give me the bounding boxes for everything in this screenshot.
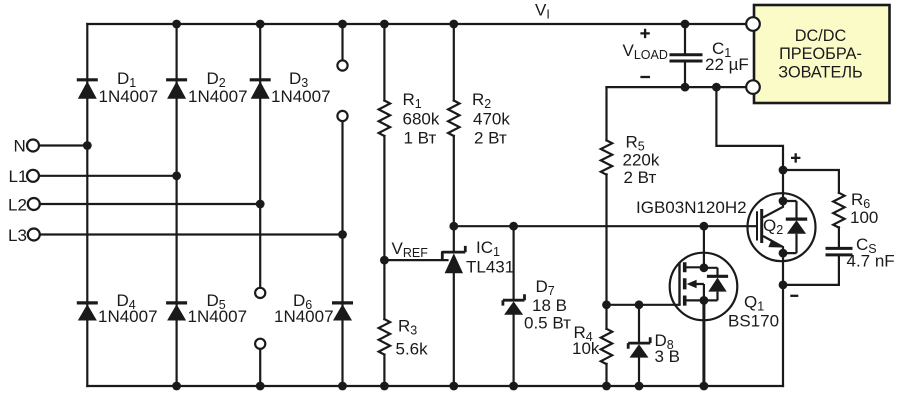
node gate line R2 <box>449 222 458 231</box>
svg-text:L1: L1 <box>9 167 28 186</box>
wire input L1 <box>39 175 177 177</box>
svg-text:0.5 Вт: 0.5 Вт <box>524 314 571 333</box>
wire Q1 source <box>702 300 705 386</box>
wire input N <box>39 144 87 146</box>
wire left rail (column A) <box>86 24 88 386</box>
zener diode D7 <box>503 294 525 315</box>
wire column C lower stub <box>259 349 261 386</box>
node top rail C1 <box>681 20 690 29</box>
diode D4 <box>77 303 98 321</box>
wire column D8 <box>638 305 640 386</box>
resistor R1 <box>379 101 390 137</box>
svg-text:IGB03N120H2: IGB03N120H2 <box>636 198 747 217</box>
svg-text:22 µF: 22 µF <box>705 55 749 74</box>
node L1 junction <box>172 171 181 180</box>
svg-text:BS170: BS170 <box>728 312 779 331</box>
wire column R2/IC1 <box>453 24 455 386</box>
wire R4/D8 to Q1 gate <box>607 304 680 306</box>
node bottom rail D7 <box>509 382 518 391</box>
svg-text:2 Вт: 2 Вт <box>474 129 507 148</box>
DC/DC converter block <box>754 5 890 103</box>
wire VREF <box>384 252 447 260</box>
svg-text:10k: 10k <box>572 339 600 358</box>
node bottom rail D8 <box>635 382 644 391</box>
terminal column D lower <box>337 111 347 121</box>
svg-text:1N4007: 1N4007 <box>271 87 331 106</box>
svg-text:1N4007: 1N4007 <box>188 87 248 106</box>
wire column D (D6) lower <box>341 121 343 386</box>
diode D1 <box>77 80 98 99</box>
terminal column C lower <box>255 339 265 349</box>
diode D6 <box>332 303 353 321</box>
node DCDC minus wire <box>712 83 721 92</box>
wire Q1 drain <box>703 226 705 267</box>
wire Q2 collector <box>782 170 784 201</box>
svg-text:470k: 470k <box>473 110 510 129</box>
node Q1 source <box>700 296 709 305</box>
node gate line D7 <box>509 222 518 231</box>
svg-text:1 Вт: 1 Вт <box>404 129 437 148</box>
capacitor CS <box>827 248 851 255</box>
diode D3 <box>250 80 271 99</box>
node Q2 collector top <box>779 166 788 175</box>
node VREF <box>380 256 389 265</box>
node top rail B <box>172 20 181 29</box>
terminal column D upper <box>337 60 347 70</box>
node R4 top <box>602 300 611 309</box>
svg-text:680k: 680k <box>403 110 440 129</box>
terminal N <box>27 140 39 152</box>
wire input L2 <box>40 203 260 205</box>
label VLOAD plus <box>640 29 649 38</box>
terminal L3 <box>28 229 40 241</box>
label VLOAD minus <box>640 76 650 78</box>
node Q1 drain <box>700 263 709 272</box>
node gate line Q1 drain <box>700 222 709 231</box>
terminal L2 <box>28 198 40 210</box>
svg-text:DC/DC: DC/DC <box>795 27 847 45</box>
node bottom rail C <box>256 382 265 391</box>
wire column R1/R3 <box>383 24 385 386</box>
transistor Q1 MOSFET <box>670 253 738 321</box>
svg-text:ПРЕОБРА-: ПРЕОБРА- <box>779 45 862 63</box>
wire column B (D2/D5) <box>176 24 178 386</box>
terminal column C upper <box>255 288 265 298</box>
node Q2 collector <box>779 197 788 206</box>
resistor R3 <box>379 319 390 354</box>
resistor R6 <box>833 193 844 228</box>
wire R6 to CS <box>838 227 840 247</box>
svg-text:1N4007: 1N4007 <box>274 307 334 326</box>
node bottom rail Q1 <box>700 382 709 391</box>
terminal DC/DC plus <box>746 17 760 31</box>
node L2 junction <box>256 200 265 209</box>
node top rail D <box>338 20 347 29</box>
svg-text:5.6k: 5.6k <box>396 340 429 359</box>
node bottom rail R4 <box>602 382 611 391</box>
wire snubber top to R6 <box>783 170 839 193</box>
node L3 junction <box>338 230 347 239</box>
wire C1 column <box>684 24 686 87</box>
capacitor C1 <box>671 55 701 61</box>
diode D5 <box>166 303 187 321</box>
wire Q2 emitter <box>782 253 784 386</box>
wire gate line R2 to Q2 <box>454 225 757 227</box>
resistor R4 <box>601 329 612 364</box>
wire input L3 <box>40 233 343 235</box>
svg-text:3 В: 3 В <box>655 347 681 366</box>
wire column D upper stub <box>341 24 343 60</box>
svg-text:L2: L2 <box>8 196 27 215</box>
wire CS bottom to emitter node <box>783 256 839 285</box>
shunt regulator IC1 TL431 <box>442 246 465 273</box>
node N junction <box>83 141 92 150</box>
wire column C (D3) upper <box>259 24 261 288</box>
svg-text:TL431: TL431 <box>466 258 514 277</box>
wire column D7 <box>512 226 514 386</box>
diode D2 <box>166 80 187 99</box>
resistor R2 <box>448 101 459 137</box>
svg-text:L3: L3 <box>8 226 27 245</box>
svg-text:N: N <box>14 137 26 156</box>
zener diode D8 <box>628 337 650 357</box>
node C1 bottom <box>681 83 690 92</box>
svg-text:1N4007: 1N4007 <box>99 87 159 106</box>
wire VLOAD lower line <box>607 86 754 88</box>
terminal DC/DC minus <box>746 80 760 94</box>
svg-text:ЗОВАТЕЛЬ: ЗОВАТЕЛЬ <box>778 64 862 82</box>
svg-text:1N4007: 1N4007 <box>188 307 248 326</box>
wire bottom rail <box>87 385 783 387</box>
svg-text:100: 100 <box>850 208 878 227</box>
node emitter snubber <box>779 281 788 290</box>
svg-text:18 В: 18 В <box>532 296 567 315</box>
node Q2 emitter <box>779 249 788 258</box>
svg-text:220k: 220k <box>623 151 660 170</box>
svg-text:4.7 nF: 4.7 nF <box>847 252 895 271</box>
terminal L1 <box>27 170 39 182</box>
transistor Q2 IGBT <box>748 193 816 261</box>
node D8 top <box>635 300 644 309</box>
node bottom rail IC1 <box>449 382 458 391</box>
wire column R5/R4 <box>605 87 607 386</box>
node top rail R1 <box>380 20 389 29</box>
node bottom rail D <box>338 382 347 391</box>
svg-text:2 Вт: 2 Вт <box>624 168 657 187</box>
svg-text:1N4007: 1N4007 <box>98 307 158 326</box>
node top rail C <box>256 20 265 29</box>
label snubber plus <box>791 153 800 162</box>
node bottom rail R3 <box>380 382 389 391</box>
node top rail R2 <box>449 20 458 29</box>
label snubber minus <box>790 295 798 297</box>
resistor R5 <box>601 140 612 174</box>
wire DCDC negative to Q2 collector <box>716 87 783 170</box>
node bottom rail B <box>172 382 181 391</box>
wire top rail VI <box>87 23 753 25</box>
